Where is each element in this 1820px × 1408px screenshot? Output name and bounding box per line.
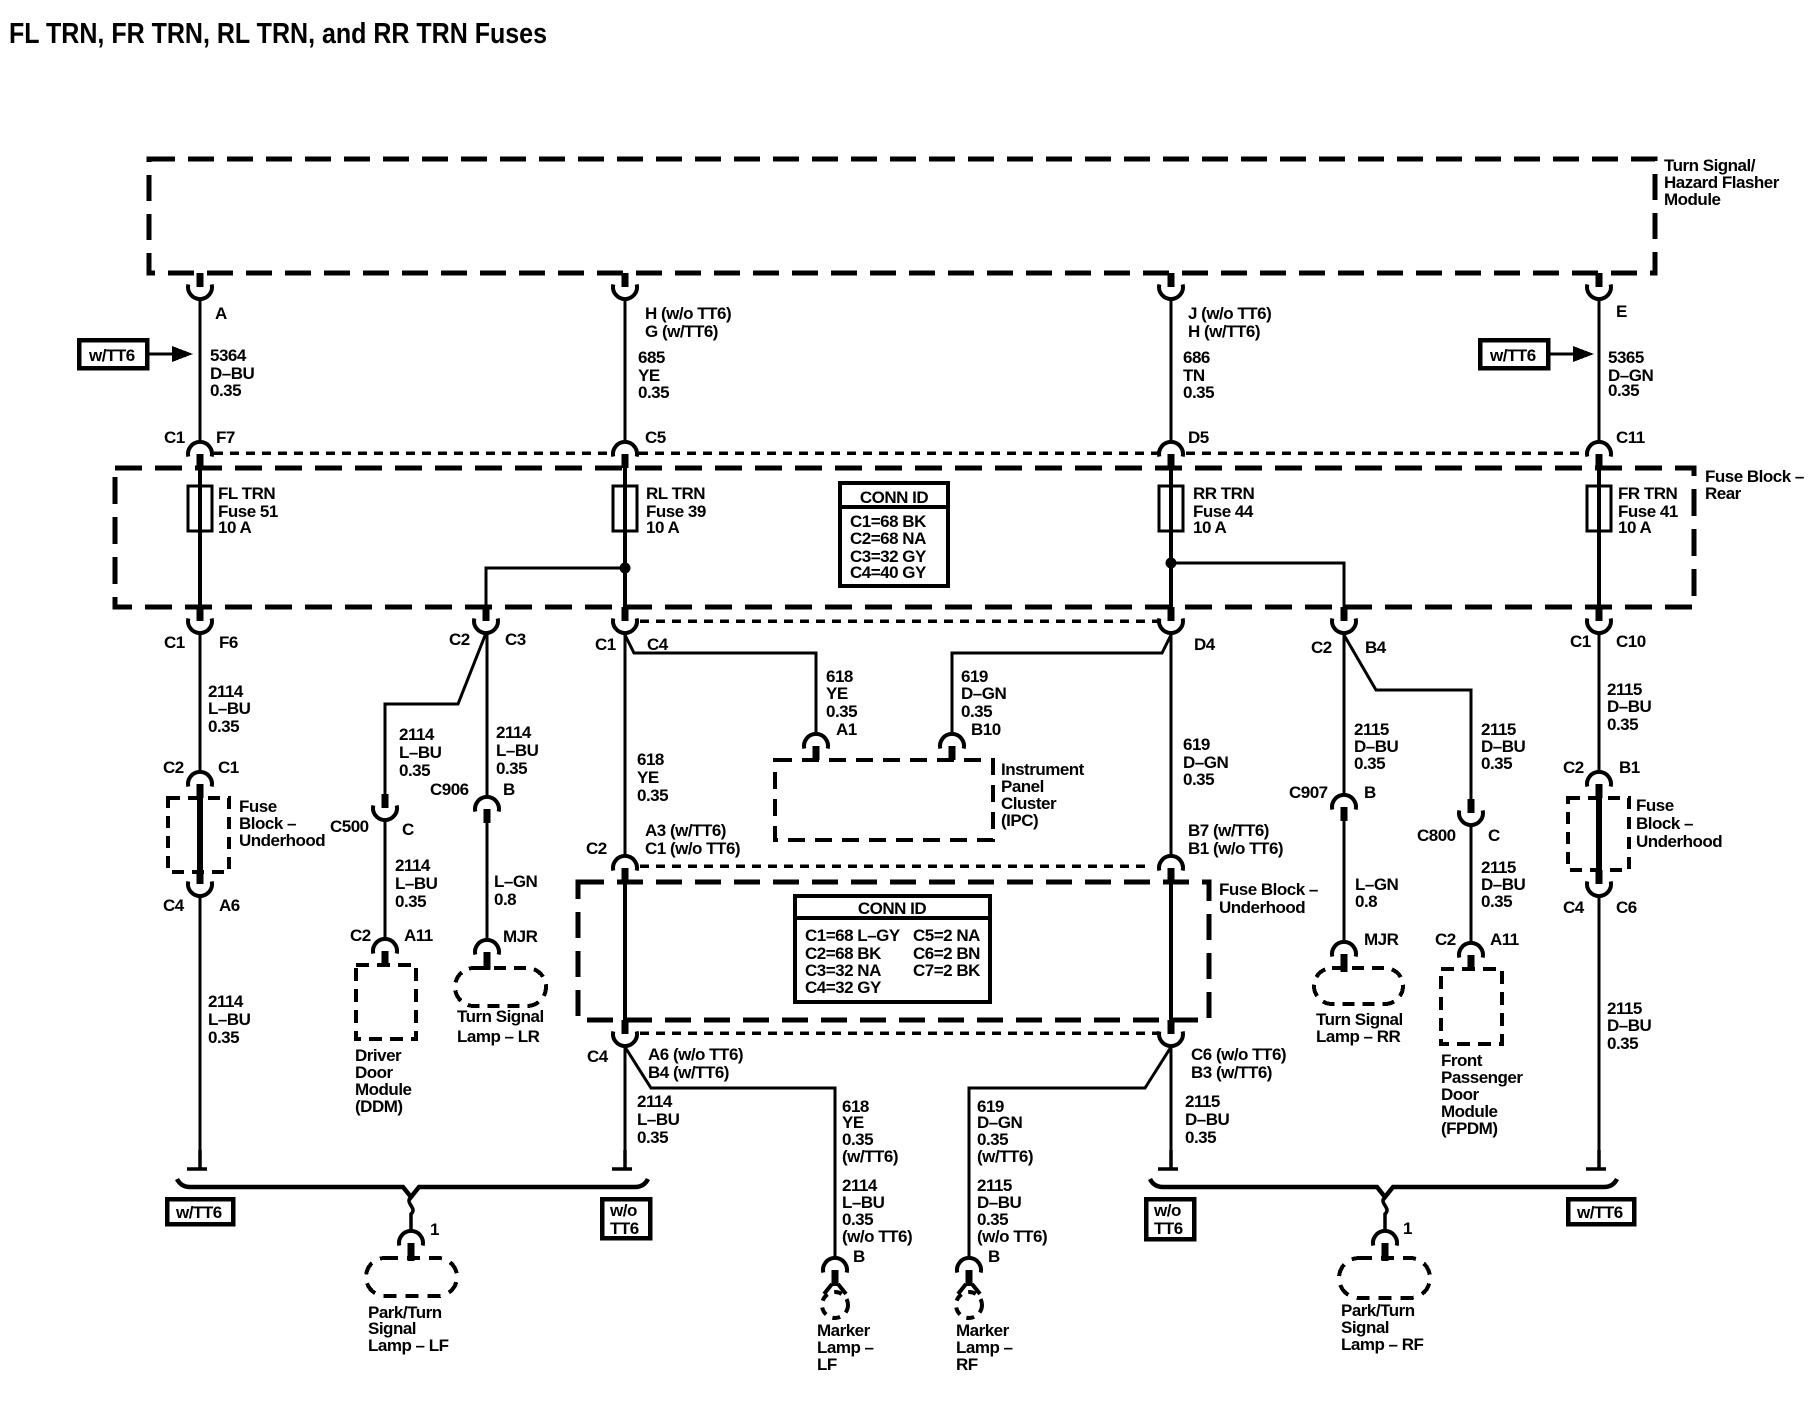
svg-text:J (w/o TT6): J (w/o TT6) [1188, 304, 1271, 323]
svg-text:C6 (w/o TT6): C6 (w/o TT6) [1191, 1045, 1286, 1064]
connector A1 [804, 734, 828, 760]
svg-text:RF: RF [956, 1355, 978, 1374]
svg-text:C1 (w/o TT6): C1 (w/o TT6) [645, 839, 740, 858]
connector C1 F7 [188, 442, 212, 468]
svg-text:(DDM): (DDM) [355, 1097, 403, 1116]
wire 2114 L-BU (wire1 lower) [199, 896, 202, 1160]
svg-text:685: 685 [638, 348, 665, 367]
svg-text:B: B [1364, 783, 1376, 802]
svg-text:0.35: 0.35 [395, 892, 426, 911]
svg-text:0.35: 0.35 [1607, 1034, 1638, 1053]
Turn Signal Lamp - LR [455, 968, 546, 1006]
svg-text:A11: A11 [1490, 930, 1519, 949]
svg-text:A: A [215, 304, 227, 323]
svg-text:5365: 5365 [1608, 348, 1644, 367]
svg-text:RR TRN: RR TRN [1193, 484, 1254, 503]
Marker Lamp - LF [822, 1292, 848, 1318]
connector C2 B1 [1587, 772, 1611, 798]
underhood connector line (dotted) [640, 864, 1151, 868]
svg-text:D5: D5 [1188, 428, 1209, 447]
wire branch to C2/B4 [1171, 563, 1344, 607]
connector B (marker LF) [823, 1258, 847, 1294]
Turn Signal Lamp - RR [1314, 968, 1403, 1004]
w/TT6 tag bottom left [167, 1199, 233, 1224]
svg-text:w/TT6: w/TT6 [175, 1203, 222, 1222]
svg-text:0.35: 0.35 [208, 717, 239, 736]
svg-text:L–BU: L–BU [395, 874, 438, 893]
connector A (module pin) [188, 273, 212, 299]
svg-text:618: 618 [637, 750, 664, 769]
connector C2 A11 right [1459, 943, 1483, 969]
svg-text:C1=68 L–GY: C1=68 L–GY [805, 926, 901, 945]
svg-text:(w/TT6): (w/TT6) [842, 1147, 898, 1166]
connector H/G (module pin) [613, 273, 637, 299]
svg-text:0.35: 0.35 [1183, 770, 1214, 789]
svg-text:(IPC): (IPC) [1001, 811, 1038, 830]
connector D5 [1159, 442, 1183, 468]
svg-text:0.35: 0.35 [961, 702, 992, 721]
svg-text:C1: C1 [164, 428, 185, 447]
wire 2115 D-BU (wire4 lower) [1598, 896, 1601, 1160]
wire 5364 D-BU [199, 299, 202, 443]
svg-text:YE: YE [637, 768, 659, 787]
connector C2 A11 [373, 939, 397, 965]
svg-text:Underhood: Underhood [1219, 898, 1305, 917]
svg-text:Underhood: Underhood [1636, 832, 1722, 851]
svg-text:D–BU: D–BU [1607, 697, 1652, 716]
wire 2114 to C906 [486, 633, 489, 797]
junction on RR TRN output [1166, 558, 1177, 569]
svg-text:Lamp – LR: Lamp – LR [457, 1027, 540, 1046]
svg-text:FL TRN: FL TRN [218, 484, 275, 503]
svg-text:C2: C2 [163, 758, 184, 777]
svg-text:C907: C907 [1289, 783, 1328, 802]
splice drop RF [1383, 1197, 1387, 1231]
svg-text:MJR: MJR [503, 927, 538, 946]
svg-text:RL TRN: RL TRN [646, 484, 705, 503]
svg-text:C4: C4 [1563, 898, 1585, 917]
svg-text:5364: 5364 [210, 346, 247, 365]
connector C4 / A6-B4 [613, 1020, 637, 1046]
svg-text:L–BU: L–BU [208, 1010, 251, 1029]
svg-text:C2: C2 [586, 839, 607, 858]
svg-text:C2: C2 [1435, 930, 1456, 949]
svg-text:C4: C4 [647, 635, 669, 654]
connector B10 [940, 734, 964, 760]
wire 2114 L-BU (wire1 upper) [199, 633, 202, 772]
svg-text:C: C [402, 820, 414, 839]
connector C1 C10 [1587, 607, 1611, 633]
svg-text:D4: D4 [1194, 635, 1216, 654]
svg-text:0.35: 0.35 [210, 381, 241, 400]
connector B7/B1 [1159, 856, 1183, 882]
wire to Marker Lamp RF [969, 1047, 1171, 1258]
connector B (marker RF) [957, 1258, 981, 1294]
svg-text:D–GN: D–GN [961, 684, 1006, 703]
svg-text:D–BU: D–BU [1185, 1110, 1230, 1129]
wire 2115 to FPDM [1470, 825, 1473, 944]
connector C2 B4 [1332, 607, 1356, 633]
svg-text:0.35: 0.35 [1183, 383, 1214, 402]
svg-text:(w/o TT6): (w/o TT6) [977, 1227, 1047, 1246]
connector C4 A6 [188, 870, 212, 896]
svg-text:2114: 2114 [399, 725, 435, 744]
wire 5365 D-GN [1598, 299, 1601, 443]
svg-text:B3 (w/TT6): B3 (w/TT6) [1191, 1063, 1272, 1082]
svg-text:A6: A6 [219, 896, 240, 915]
connector MJR [475, 940, 499, 970]
svg-text:CONN ID: CONN ID [858, 899, 927, 918]
svg-text:Fuse: Fuse [1636, 796, 1674, 815]
svg-text:C2: C2 [1563, 758, 1584, 777]
svg-text:1: 1 [430, 1220, 439, 1239]
svg-text:10 A: 10 A [646, 518, 680, 537]
svg-text:H (w/TT6): H (w/TT6) [1188, 322, 1260, 341]
svg-text:1: 1 [1403, 1219, 1412, 1238]
svg-text:C2: C2 [350, 926, 371, 945]
wire branch C2/C3 to C500 [385, 633, 486, 794]
svg-text:L–BU: L–BU [637, 1110, 680, 1129]
svg-text:C5: C5 [645, 428, 666, 447]
svg-text:0.35: 0.35 [208, 1028, 239, 1047]
svg-text:C800: C800 [1417, 826, 1456, 845]
svg-text:2115: 2115 [1185, 1092, 1220, 1111]
svg-text:w/TT6: w/TT6 [88, 346, 135, 365]
svg-text:2114: 2114 [637, 1092, 673, 1111]
svg-text:C10: C10 [1616, 632, 1646, 651]
wire branch to C2/C3 [486, 568, 625, 607]
svg-text:2114: 2114 [496, 723, 532, 742]
svg-text:0.35: 0.35 [1608, 381, 1639, 400]
svg-text:B: B [988, 1247, 1000, 1266]
left splice bus [177, 1179, 648, 1197]
svg-text:10 A: 10 A [1193, 518, 1227, 537]
Instrument Panel Cluster box [775, 760, 993, 840]
rear fuse block connector line (dotted) [214, 451, 612, 455]
svg-text:MJR: MJR [1364, 930, 1399, 949]
wire 2115 D-BU (wire3 lower) [1170, 1046, 1173, 1160]
splice drop LF [409, 1197, 413, 1231]
wire 685 YE [624, 299, 627, 443]
fuse RL TRN Fuse 39 [623, 468, 627, 607]
wire 2114 L-BU (wire2 lower) [624, 1046, 627, 1160]
wire 619 D-GN (RR to IPC) [952, 635, 1171, 735]
svg-text:YE: YE [826, 684, 848, 703]
svg-text:H (w/o TT6): H (w/o TT6) [645, 304, 731, 323]
connector C800 C [1459, 799, 1483, 825]
svg-text:0.35: 0.35 [826, 702, 857, 721]
svg-text:FR TRN: FR TRN [1618, 484, 1678, 503]
fuse FL TRN Fuse 51 [198, 468, 202, 607]
svg-text:0.35: 0.35 [638, 383, 669, 402]
svg-text:0.35: 0.35 [1481, 892, 1512, 911]
svg-text:Turn Signal: Turn Signal [457, 1007, 544, 1026]
Fuse Block - Rear box [115, 468, 1694, 607]
svg-text:C3: C3 [505, 630, 526, 649]
connector C11 [1587, 442, 1611, 468]
svg-text:2114: 2114 [208, 992, 244, 1011]
connector J/H (module pin) [1159, 273, 1183, 299]
svg-text:LF: LF [817, 1355, 837, 1374]
svg-text:0.8: 0.8 [1355, 892, 1377, 911]
svg-text:C1: C1 [1570, 632, 1591, 651]
wire 619 D-GN (wire3 mid) [1170, 633, 1173, 854]
svg-text:C4: C4 [163, 896, 185, 915]
svg-text:686: 686 [1183, 348, 1210, 367]
svg-text:619: 619 [1183, 735, 1210, 754]
connector E (module pin) [1587, 273, 1611, 299]
svg-text:C: C [1488, 826, 1500, 845]
svg-text:10 A: 10 A [1618, 518, 1652, 537]
svg-text:B7 (w/TT6): B7 (w/TT6) [1188, 821, 1269, 840]
svg-text:2114: 2114 [395, 856, 431, 875]
svg-text:A11: A11 [404, 926, 433, 945]
svg-text:Lamp – RF: Lamp – RF [1341, 1335, 1424, 1354]
svg-text:CONN ID: CONN ID [860, 488, 929, 507]
svg-text:TT6: TT6 [1154, 1219, 1183, 1238]
svg-text:C1: C1 [218, 758, 239, 777]
Fuse Block - Underhood (left small box) [168, 798, 229, 872]
connector C2 C1 [188, 772, 212, 798]
connector MJR right [1332, 942, 1356, 972]
svg-text:B1 (w/o TT6): B1 (w/o TT6) [1188, 839, 1283, 858]
svg-text:w/o: w/o [1153, 1201, 1181, 1220]
svg-text:C2: C2 [1311, 638, 1332, 657]
wire 2114 to DDM [384, 820, 387, 940]
rear CONN ID table [840, 483, 948, 586]
w/o TT6 tag bottom right [1146, 1199, 1194, 1239]
svg-text:L–BU: L–BU [208, 699, 251, 718]
svg-text:G (w/TT6): G (w/TT6) [645, 322, 718, 341]
svg-text:F6: F6 [219, 633, 238, 652]
svg-text:B10: B10 [971, 720, 1001, 739]
svg-text:10 A: 10 A [218, 518, 252, 537]
svg-text:w/o: w/o [609, 1201, 637, 1220]
svg-text:0.35: 0.35 [496, 759, 527, 778]
svg-text:E: E [1616, 302, 1627, 321]
svg-text:(FPDM): (FPDM) [1441, 1119, 1497, 1138]
svg-text:0.35: 0.35 [637, 1128, 668, 1147]
svg-text:L–GN: L–GN [494, 872, 538, 891]
svg-text:C6: C6 [1616, 898, 1637, 917]
svg-text:C5=2 NA: C5=2 NA [913, 926, 980, 945]
svg-text:B4: B4 [1365, 638, 1387, 657]
connector C2 / A3-C1 [613, 856, 637, 882]
wire branch C2/B4 to C800 [1344, 635, 1471, 799]
connector C4 C6 [1587, 870, 1611, 896]
center CONN ID table [795, 896, 990, 1002]
svg-text:(w/o TT6): (w/o TT6) [842, 1227, 912, 1246]
svg-text:B1: B1 [1619, 758, 1640, 777]
dotted line under center block [640, 1031, 1158, 1035]
svg-text:0.35: 0.35 [1354, 754, 1385, 773]
svg-text:0.35: 0.35 [399, 761, 430, 780]
svg-text:0.35: 0.35 [637, 786, 668, 805]
svg-text:A3 (w/TT6): A3 (w/TT6) [645, 821, 726, 840]
svg-text:Module: Module [1664, 190, 1721, 209]
svg-text:C500: C500 [330, 817, 369, 836]
Fuse Block - Underhood (center box) [578, 882, 1209, 1020]
svg-text:FL TRN, FR TRN, RL TRN, and RR: FL TRN, FR TRN, RL TRN, and RR TRN Fuses [9, 18, 547, 50]
svg-text:(w/TT6): (w/TT6) [977, 1147, 1033, 1166]
svg-text:C906: C906 [430, 780, 469, 799]
svg-text:Fuse Block –: Fuse Block – [1219, 880, 1318, 899]
svg-text:L–BU: L–BU [399, 743, 442, 762]
fuse RR TRN Fuse 44 [1169, 468, 1173, 607]
connector C1 F6 [188, 607, 212, 633]
Marker Lamp - RF [956, 1292, 982, 1318]
connector C906 B [475, 797, 499, 823]
svg-text:C2=68 NA: C2=68 NA [850, 529, 926, 548]
fuse FR TRN Fuse 41 [1597, 468, 1601, 607]
Park/Turn Signal Lamp - LF [366, 1258, 457, 1296]
connector D4 [1159, 607, 1183, 633]
svg-text:D–BU: D–BU [1607, 1016, 1652, 1035]
svg-text:A6 (w/o TT6): A6 (w/o TT6) [648, 1045, 743, 1064]
svg-text:L–BU: L–BU [496, 741, 539, 760]
svg-text:w/TT6: w/TT6 [1489, 346, 1536, 365]
svg-text:C2: C2 [449, 630, 470, 649]
svg-text:C1: C1 [164, 633, 185, 652]
svg-text:Lamp – LF: Lamp – LF [368, 1336, 449, 1355]
svg-text:0.8: 0.8 [494, 890, 516, 909]
right splice bus [1150, 1179, 1617, 1197]
svg-text:Underhood: Underhood [239, 831, 325, 850]
wire L-GN 0.8 [486, 823, 489, 940]
svg-text:C4=32 GY: C4=32 GY [805, 978, 882, 997]
svg-text:A1: A1 [836, 720, 857, 739]
w/TT6 tag bottom right [1568, 1199, 1634, 1224]
svg-text:C4=40 GY: C4=40 GY [850, 563, 927, 582]
Park/Turn Signal Lamp - RF [1339, 1258, 1430, 1298]
wire to Marker Lamp LF [625, 1047, 835, 1258]
junction on RL TRN output [620, 563, 631, 574]
dotted line under rear block (C4-D4) [640, 619, 1158, 623]
svg-text:0.35: 0.35 [1607, 715, 1638, 734]
wire branch C2/B4 to C907 [1343, 633, 1346, 795]
wire 618 YE (wire2 mid) [624, 633, 627, 854]
svg-text:Lamp – RR: Lamp – RR [1316, 1027, 1401, 1046]
connector C2 C3 [474, 607, 498, 633]
w/o TT6 tag bottom left [602, 1199, 650, 1238]
w/TT6 flag right [1480, 340, 1548, 368]
w/TT6 flag left [79, 340, 147, 368]
connector C1 C4 [613, 607, 637, 633]
svg-text:w/TT6: w/TT6 [1576, 1203, 1623, 1222]
connector C500 C [373, 794, 397, 820]
svg-text:Rear: Rear [1705, 484, 1742, 503]
svg-text:C1: C1 [595, 635, 616, 654]
svg-text:C4: C4 [587, 1047, 609, 1066]
wire 686 TN [1170, 299, 1173, 443]
svg-text:Block –: Block – [1636, 814, 1693, 833]
wire end hooks [187, 1150, 207, 1169]
wire 618 YE (RL to IPC) [625, 635, 816, 735]
connector C5 [613, 442, 637, 468]
Turn Signal/Hazard Flasher Module box [149, 159, 1655, 273]
Front Passenger Door Module box [1441, 969, 1502, 1044]
wire L-GN 0.8 right [1343, 821, 1346, 942]
wire 2115 D-BU (wire4 upper) [1598, 633, 1601, 772]
svg-text:C7=2 BK: C7=2 BK [913, 961, 981, 980]
svg-text:0.35: 0.35 [1481, 754, 1512, 773]
connector C907 B [1332, 795, 1356, 821]
svg-text:B: B [503, 780, 515, 799]
Fuse Block - Underhood (right small box) [1568, 798, 1629, 870]
svg-text:B: B [853, 1247, 865, 1266]
Driver Door Module box [356, 965, 416, 1039]
svg-text:TT6: TT6 [610, 1219, 639, 1238]
svg-text:0.35: 0.35 [1185, 1128, 1216, 1147]
svg-text:B4 (w/TT6): B4 (w/TT6) [648, 1063, 729, 1082]
svg-text:F7: F7 [216, 428, 235, 447]
connector C6/B3 [1159, 1020, 1183, 1046]
svg-text:C11: C11 [1616, 428, 1645, 447]
